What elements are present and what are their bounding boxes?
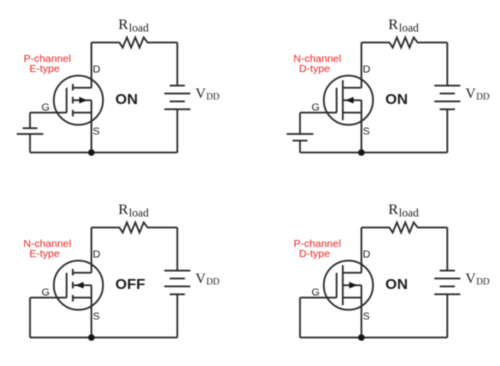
svg-text:R: R xyxy=(388,17,398,33)
svg-text:D: D xyxy=(93,249,101,261)
svg-text:E-type: E-type xyxy=(29,63,60,75)
svg-text:G: G xyxy=(42,101,50,113)
svg-text:V: V xyxy=(195,271,206,287)
svg-text:V: V xyxy=(465,86,476,102)
svg-text:G: G xyxy=(42,286,50,298)
svg-text:load: load xyxy=(129,23,149,35)
svg-text:load: load xyxy=(129,208,149,220)
svg-text:D: D xyxy=(93,64,101,76)
svg-text:D-type: D-type xyxy=(299,248,330,260)
svg-text:OFF: OFF xyxy=(115,276,145,293)
svg-text:S: S xyxy=(93,310,100,322)
svg-text:ON: ON xyxy=(115,91,138,108)
svg-text:D: D xyxy=(363,249,371,261)
svg-text:D: D xyxy=(363,64,371,76)
svg-text:S: S xyxy=(93,125,100,137)
svg-text:DD: DD xyxy=(206,91,220,101)
svg-text:load: load xyxy=(399,23,419,35)
svg-text:R: R xyxy=(118,202,128,218)
svg-text:G: G xyxy=(312,101,320,113)
svg-text:R: R xyxy=(118,17,128,33)
svg-text:load: load xyxy=(399,208,419,220)
svg-text:ON: ON xyxy=(385,276,408,293)
svg-text:S: S xyxy=(363,125,370,137)
svg-text:R: R xyxy=(388,202,398,218)
svg-text:E-type: E-type xyxy=(29,248,60,260)
svg-text:S: S xyxy=(363,310,370,322)
svg-text:DD: DD xyxy=(476,91,490,101)
svg-text:DD: DD xyxy=(476,276,490,286)
svg-text:V: V xyxy=(195,86,206,102)
svg-text:ON: ON xyxy=(385,91,408,108)
svg-text:G: G xyxy=(312,286,320,298)
svg-text:DD: DD xyxy=(206,276,220,286)
svg-text:V: V xyxy=(465,271,476,287)
svg-text:D-type: D-type xyxy=(299,63,330,75)
